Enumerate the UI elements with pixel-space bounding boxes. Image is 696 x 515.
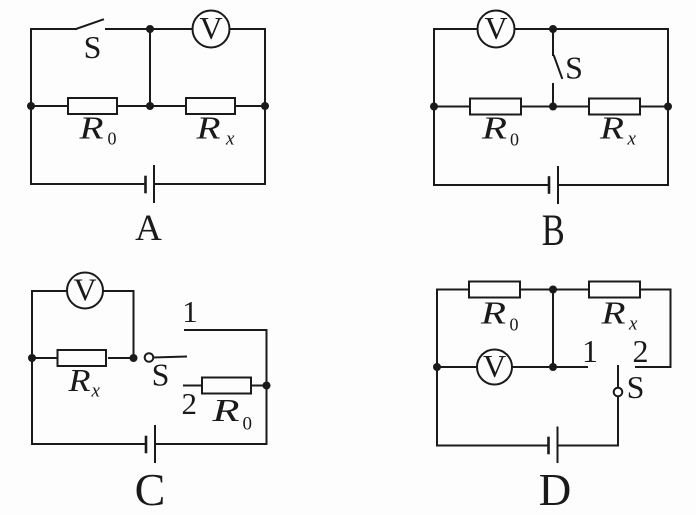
wire top-left segment B xyxy=(434,28,478,30)
svg-text:0: 0 xyxy=(243,414,253,435)
battery long plate (D) xyxy=(557,428,559,463)
switch S lower wire (D) xyxy=(617,397,619,446)
switch S blade (D) xyxy=(617,366,619,388)
resistor R0 (D) xyxy=(469,282,520,298)
wire R0-to-Rx (B) xyxy=(521,106,589,108)
svg-text:R: R xyxy=(211,392,240,428)
svg-text:0: 0 xyxy=(510,315,519,335)
wire left vertical (C) xyxy=(31,291,33,444)
svg-text:R: R xyxy=(195,110,221,146)
voltmeter V circle (A) xyxy=(193,11,230,48)
switch S blade (B) xyxy=(554,56,562,78)
svg-text:S: S xyxy=(84,29,102,65)
svg-text:S: S xyxy=(565,50,583,86)
wire bottom-left (A) xyxy=(31,183,145,185)
wire Rx-to-right (B) xyxy=(640,106,668,108)
node mid-left (D) xyxy=(433,363,441,371)
resistor R0 (A) xyxy=(68,98,117,114)
voltmeter V circle (B) xyxy=(478,11,515,48)
resistor R0 (B) xyxy=(470,99,521,115)
wire right vertical (A) xyxy=(264,29,266,184)
wire mid-left (D) xyxy=(437,366,477,368)
wire voltmeter-to-corner (A) xyxy=(230,28,266,30)
battery short plate (C) xyxy=(145,437,148,452)
battery short plate (A) xyxy=(144,177,147,192)
wire bottom-left (D) xyxy=(437,445,549,447)
wire mid-left (B) xyxy=(434,106,470,108)
node mid-left (A) xyxy=(27,102,35,110)
wire R0-to-Rx (A) xyxy=(117,105,186,107)
wire top-left segment A xyxy=(31,28,76,30)
resistor R0 (C) xyxy=(202,378,251,394)
voltmeter V circle (C) xyxy=(67,273,103,309)
wire Rx-to-right (A) xyxy=(235,105,265,107)
node mid-right (B) xyxy=(664,103,672,111)
wire left vertical (D) xyxy=(436,290,438,446)
wire R0-to-Rx (D) xyxy=(520,289,589,291)
node mid-middle (D) xyxy=(549,363,557,371)
wire mid-left (A) xyxy=(31,105,68,107)
svg-text:R: R xyxy=(78,110,104,146)
node top-middle (B) xyxy=(549,25,557,33)
wire top-left segment C xyxy=(32,290,67,292)
node mid-left (C) xyxy=(28,354,36,362)
wire voltmeter-to-contact1 (D) xyxy=(512,366,587,368)
svg-text:V: V xyxy=(73,272,96,308)
wire bottom-right (B) xyxy=(558,184,668,186)
switch S lower stub (B) xyxy=(552,84,554,107)
resistor Rx (D) xyxy=(589,282,640,298)
svg-text:A: A xyxy=(135,208,162,249)
svg-text:R: R xyxy=(481,110,508,146)
wire Rx-to-corner (D) xyxy=(640,289,671,291)
node right of R0 (C) xyxy=(263,382,271,390)
svg-text:0: 0 xyxy=(510,130,519,150)
node mid-middle (A) xyxy=(146,102,154,110)
resistor Rx (A) xyxy=(186,98,235,114)
switch S pivot (C) xyxy=(145,353,154,362)
svg-text:D: D xyxy=(539,465,572,515)
wire bottom-left (C) xyxy=(32,443,146,445)
svg-text:x: x xyxy=(628,314,638,335)
wire switch-to-node (A) xyxy=(106,28,150,30)
wire bottom-right (D) xyxy=(558,445,619,447)
contact 2 wire (C) xyxy=(184,385,202,387)
svg-text:R: R xyxy=(600,295,626,331)
svg-text:B: B xyxy=(542,206,565,255)
wire right vertical (C) xyxy=(266,330,268,444)
wire Rx-to-node (C) xyxy=(109,357,134,359)
svg-text:2: 2 xyxy=(181,386,197,421)
switch S upper stub (B) xyxy=(552,29,554,55)
svg-text:x: x xyxy=(627,129,637,150)
wire node-to-voltmeter (A) xyxy=(150,28,193,30)
voltmeter V circle (D) xyxy=(477,350,512,385)
contact 1 wire (C) xyxy=(185,329,267,331)
battery short plate (B) xyxy=(548,178,551,193)
svg-text:R: R xyxy=(480,295,507,331)
wire left vertical (B) xyxy=(433,29,435,185)
svg-text:R: R xyxy=(67,362,91,398)
svg-text:x: x xyxy=(225,129,235,150)
node mid-middle (B) xyxy=(549,103,557,111)
node top-middle (A) xyxy=(146,25,154,33)
svg-text:2: 2 xyxy=(633,333,649,369)
wire middle vertical (D) xyxy=(552,290,554,368)
wire top-left segment D xyxy=(437,289,469,291)
svg-text:R: R xyxy=(599,110,625,146)
wire bottom-right (C) xyxy=(155,443,267,445)
switch S pivot (D) xyxy=(614,388,623,397)
wire voltmeter-to-corner (B) xyxy=(515,28,669,30)
wire mid-left (C) xyxy=(32,357,56,359)
wire left vertical (A) xyxy=(30,29,32,184)
svg-text:0: 0 xyxy=(108,129,117,149)
svg-text:S: S xyxy=(627,369,645,405)
battery long plate (C) xyxy=(154,426,156,462)
wire middle vertical (A) xyxy=(149,29,151,106)
svg-text:S: S xyxy=(152,357,170,393)
node mid-right (A) xyxy=(261,102,269,110)
resistor Rx (B) xyxy=(589,99,640,115)
wire voltmeter-to-corner (C) xyxy=(103,290,134,292)
svg-text:1: 1 xyxy=(582,333,598,369)
contact 2 wire (D) xyxy=(636,366,671,368)
battery long plate (A) xyxy=(153,166,155,202)
switch S blade (C) xyxy=(154,357,187,358)
wire bottom-right (A) xyxy=(154,183,265,185)
switch S blade (A) xyxy=(76,20,103,30)
battery short plate (D) xyxy=(547,438,550,453)
svg-text:C: C xyxy=(135,464,166,515)
wire right vertical (B) xyxy=(667,29,669,185)
svg-text:1: 1 xyxy=(182,294,198,329)
node top-middle (D) xyxy=(549,286,557,294)
node mid-right of Rx (C) xyxy=(130,354,138,362)
resistor Rx (C) xyxy=(58,350,107,366)
wire voltmeter right vertical (C) xyxy=(133,291,135,358)
wire bottom-left (B) xyxy=(434,184,549,186)
svg-text:x: x xyxy=(91,381,101,402)
battery long plate (B) xyxy=(557,167,559,203)
node mid-left (B) xyxy=(430,103,438,111)
wire R0-to-right (C) xyxy=(251,385,267,387)
svg-text:V: V xyxy=(484,10,507,46)
svg-text:V: V xyxy=(483,348,506,384)
wire right vertical (D) xyxy=(670,290,672,368)
svg-text:V: V xyxy=(199,10,222,46)
